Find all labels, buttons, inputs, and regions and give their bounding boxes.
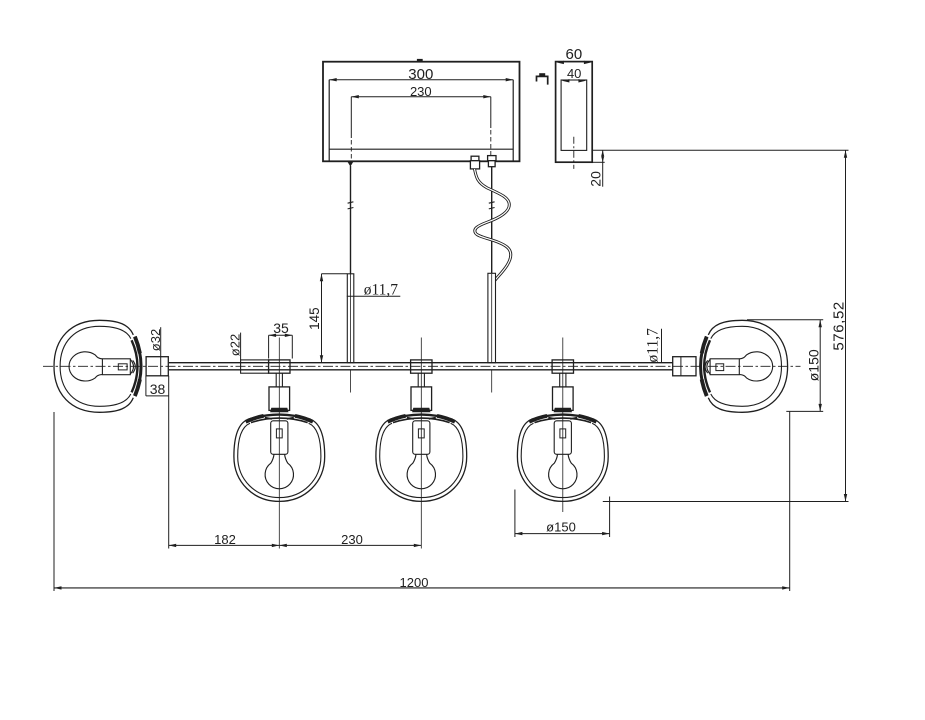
extension line 1200 left (53, 412, 55, 591)
svg-text:ø22: ø22 (227, 334, 242, 356)
pendant globe 2 socket housing (411, 387, 432, 411)
suspension rod 2 (14.5mm tube) (488, 273, 496, 362)
horizontal centre axis (43, 365, 801, 367)
extension line globes bottom (603, 501, 849, 503)
dimension 145 (rod length) (307, 274, 348, 363)
right globe inner glass (711, 326, 782, 406)
dimension 182 (169, 532, 280, 547)
pendant globe 3 socket housing (553, 387, 574, 411)
suspension wire 2 (491, 167, 493, 274)
pendant globe 3 rim dark centre (554, 408, 572, 412)
pendant globe 2 bulb (407, 454, 435, 488)
coiled cord (475, 169, 511, 285)
pendant globe 3 rim wedge right (579, 416, 597, 422)
centre line wire mount left (dashed) (350, 140, 352, 161)
left globe outer glass (54, 320, 133, 412)
right globe rim wedge bottom (702, 379, 707, 396)
left globe rim wedge top (135, 337, 140, 354)
dimension 11,7 (bar tube diameter) (645, 328, 662, 363)
pendant globe 2 tube notch (418, 429, 424, 438)
pendant globe 1 outer glass (234, 419, 325, 501)
dimension 300 (canopy width) (329, 66, 513, 83)
pendant globe 2 rim wedge left (388, 416, 406, 422)
pendant globe 1 connector on bar (269, 360, 290, 373)
left globe rim band (132, 337, 141, 396)
pendant globe 1 stem (276, 373, 282, 387)
pendant globe 1 tube notch (276, 429, 282, 438)
svg-text:38: 38 (150, 381, 166, 397)
pendant globe 3 inner glass (521, 423, 604, 497)
suspension rod 1 (14.5mm tube) (347, 274, 354, 363)
right bulb glass (739, 352, 772, 381)
svg-text:230: 230 (410, 84, 432, 99)
bar tube bottom line (169, 369, 673, 371)
dimension 150 right globe (747, 320, 823, 412)
label diameter 11,7 rod leader (347, 281, 401, 298)
svg-text:60: 60 (566, 46, 583, 63)
pendant globe 2 inner tube (413, 421, 430, 455)
left bulb screw base (102, 359, 135, 375)
pendant globe 2 centre line (420, 338, 422, 549)
right bulb screw base (705, 359, 739, 375)
wire 2 break marks (489, 202, 495, 209)
svg-text:1200: 1200 (400, 575, 429, 590)
left bulb glass (69, 352, 102, 381)
canopy front view (ceiling box 300x60) (323, 62, 520, 162)
pendant globe 1 rim wedge left (246, 416, 264, 422)
pendant globe 3 rim dashes (548, 418, 577, 419)
dimension 230 (wire drop spacing) (351, 84, 491, 138)
dimension 576,52 (overall drop) (831, 150, 848, 501)
dimension 230 bottom (279, 532, 421, 547)
svg-text:ø150: ø150 (806, 349, 822, 381)
pendant globe 2 rim wedge right (437, 416, 455, 422)
pendant globe 3 tube notch (560, 429, 566, 438)
pendant globe 3 outer glass (517, 419, 608, 501)
pendant globe 2 rim band (390, 415, 453, 423)
svg-text:300: 300 (408, 66, 433, 83)
pendant globe 1 rim dark centre (270, 408, 288, 412)
pendant globe 2 stem (418, 373, 424, 387)
rod 2 centre line (491, 274, 493, 393)
pendant globe 1 centre line (278, 338, 280, 549)
pendant globe 1 socket housing (269, 387, 290, 411)
side view centre line (573, 137, 575, 169)
svg-text:182: 182 (214, 532, 236, 547)
dimension 1200 overall width (54, 575, 790, 590)
pendant globe 3 inner tube (554, 421, 571, 455)
dimension 60 (side view width) (556, 46, 591, 64)
pendant globe 2 rim dashes (407, 418, 436, 419)
dimension 35 (connector length) (269, 320, 293, 359)
wire cone mount 1 (347, 161, 353, 166)
pendant globe 2 rim dark centre (412, 408, 430, 412)
svg-text:230: 230 (341, 532, 363, 547)
suspension wire 1 (350, 166, 352, 274)
pendant globe 1 rim wedge right (295, 416, 313, 422)
pendant globe 2 inner glass (380, 423, 463, 497)
bar sleeve (22mm) (241, 333, 269, 374)
pendant globe 1 inner tube (271, 421, 288, 455)
svg-text:ø11,7: ø11,7 (364, 281, 399, 298)
pendant globe 3 stem (560, 373, 566, 387)
pendant globe 1 rim band (248, 415, 311, 423)
pendant globe 3 rim band (532, 415, 595, 423)
extension line from canopy side to right dim (592, 150, 848, 162)
dimension 38 (holder length) (146, 376, 169, 549)
dimension 40 (inner width) (562, 66, 586, 82)
svg-text:ø32: ø32 (148, 329, 163, 351)
svg-text:35: 35 (273, 320, 289, 336)
pendant globe 1 inner glass (238, 423, 321, 497)
right globe outer glass (708, 320, 787, 412)
right globe rim wedge top (702, 337, 707, 354)
extension line 1200 right (789, 412, 791, 591)
pendant globe 3 connector on bar (552, 360, 573, 373)
centre line wire mount right (dashed) (490, 130, 492, 156)
pendant globe 1 rim dashes (265, 418, 294, 419)
svg-text:ø11,7: ø11,7 (645, 328, 662, 363)
dimension 20 (plate offset) (588, 150, 605, 187)
left globe holder ring (32mm) (146, 357, 168, 376)
cable gland 2 (488, 156, 496, 167)
svg-text:20: 20 (588, 171, 604, 187)
left globe inner glass (60, 326, 131, 406)
right globe rim band (701, 337, 710, 396)
pendant globe 2 outer glass (376, 419, 467, 501)
label diameter 22 (227, 334, 242, 356)
svg-text:576,52: 576,52 (831, 301, 848, 350)
mounting clip symbol (537, 74, 548, 85)
right globe holder ring (673, 357, 696, 376)
svg-text:145: 145 (307, 307, 322, 330)
svg-text:40: 40 (567, 66, 581, 81)
rod 1 centre line (350, 274, 352, 393)
canopy side view (60 wide) (556, 62, 593, 163)
bar tube top line (169, 362, 673, 364)
pendant globe 3 centre line (562, 338, 564, 513)
wire 1 break marks (348, 202, 354, 209)
dimension 150 bottom globe (515, 490, 610, 538)
pendant globe 3 rim wedge left (529, 416, 547, 422)
left globe rim wedge bottom (135, 379, 140, 396)
pendant globe 2 connector on bar (411, 360, 432, 373)
cable gland 1 (470, 156, 479, 169)
svg-text:ø150: ø150 (546, 519, 576, 534)
pendant globe 1 bulb (265, 454, 293, 488)
canopy top centre mark (417, 59, 422, 62)
dimension 32 (holder diameter) (148, 327, 163, 376)
pendant globe 3 bulb (549, 454, 577, 488)
